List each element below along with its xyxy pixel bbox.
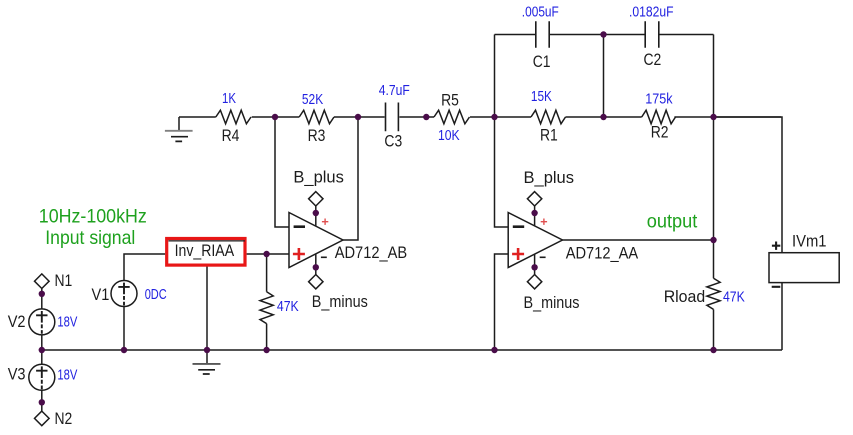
op-amp U1 positive supply pin stub bbox=[315, 206, 317, 226]
wire V1 bottom to ground rail bbox=[123, 307, 125, 351]
ground bbox=[165, 117, 193, 141]
node B_plus diamond op-amp U2 bbox=[527, 192, 541, 206]
op-amp U1 minus input symbol bbox=[294, 225, 305, 228]
source V3 bbox=[29, 364, 55, 390]
svg-text:B_plus: B_plus bbox=[293, 169, 344, 187]
node junction V1 bottom bbox=[121, 347, 127, 353]
svg-text:V3: V3 bbox=[8, 366, 26, 384]
svg-text:10Hz-100kHz: 10Hz-100kHz bbox=[39, 206, 147, 228]
node junction Rload bottom bbox=[710, 347, 716, 353]
wire Inv_RIAA bottom stub to ground rail bbox=[206, 266, 208, 363]
subcircuit Inv_RIAA box bbox=[167, 239, 245, 266]
source V1 bbox=[111, 281, 137, 307]
node junction U1 supply top bbox=[313, 210, 319, 216]
capacitor C3 bbox=[386, 103, 399, 132]
svg-text:.0182uF: .0182uF bbox=[629, 5, 674, 21]
wire op-amp U2 plus input down to ground rail bbox=[495, 254, 509, 350]
svg-text:output: output bbox=[647, 211, 698, 233]
wire op-amp U1 output to R3/C3 junction bbox=[343, 117, 358, 240]
wire vertical x=603.5 between C1/C2 junction and R1/R2 junction bbox=[603, 35, 605, 118]
svg-text:R2: R2 bbox=[651, 124, 669, 142]
node junction U2 supply bottom bbox=[531, 264, 537, 270]
op-amp U2 AD712_AA triangle bbox=[508, 213, 562, 268]
op-amp U2 small red plus (supply) bbox=[541, 219, 547, 225]
node junction ground rail center bbox=[204, 347, 210, 353]
svg-text:18V: 18V bbox=[57, 368, 77, 384]
node B_minus diamond op-amp U1 bbox=[309, 275, 323, 289]
wire op-amp U2 output to right vertical bbox=[563, 239, 714, 241]
svg-text:47K: 47K bbox=[723, 290, 745, 306]
wire main horizontal line y=117 segments bbox=[179, 116, 781, 118]
node junction U2 plus bottom bbox=[491, 347, 497, 353]
wire Rload bottom lead bbox=[713, 309, 715, 350]
svg-text:R5: R5 bbox=[441, 92, 459, 110]
svg-text:AD712_AA: AD712_AA bbox=[566, 245, 639, 263]
wire V1 branch from Inv_RIAA left to V1 top bbox=[124, 254, 165, 281]
node junction above N2 bbox=[39, 399, 45, 405]
node junction below N1 bbox=[39, 291, 45, 297]
svg-text:C3: C3 bbox=[384, 133, 402, 151]
wire left source chain x=41 bbox=[41, 289, 43, 412]
svg-text:B_minus: B_minus bbox=[312, 293, 368, 311]
wire vertical right x=713.5 from top line down to Rload top bbox=[713, 35, 715, 279]
resistor R1 bbox=[531, 110, 566, 124]
wire top feedback line y=34.5 bbox=[495, 34, 714, 36]
voltmeter IVm1 plus terminal bbox=[772, 242, 780, 250]
svg-text:175k: 175k bbox=[645, 92, 673, 108]
svg-text:IVm1: IVm1 bbox=[792, 233, 827, 251]
op-amp U1 negative supply pin stub bbox=[315, 254, 317, 275]
node B_plus diamond op-amp U1 bbox=[309, 192, 323, 206]
svg-text:V2: V2 bbox=[8, 313, 26, 331]
op-amp U2 small minus (supply) bbox=[540, 256, 546, 258]
node junction U1 supply bottom bbox=[313, 264, 319, 270]
svg-text:N1: N1 bbox=[55, 272, 73, 290]
node junction R3/C3 output U1 bbox=[355, 114, 361, 120]
svg-text:Rload: Rload bbox=[664, 288, 706, 306]
voltmeter IVm1 box bbox=[769, 253, 839, 283]
ground below Inv_RIAA bbox=[193, 364, 221, 374]
svg-text:4.7uF: 4.7uF bbox=[379, 83, 410, 99]
svg-text:C1: C1 bbox=[533, 53, 551, 71]
svg-text:AD712_AB: AD712_AB bbox=[335, 244, 408, 262]
node junction R1/R2 bbox=[600, 114, 606, 120]
op-amp U2 minus input symbol bbox=[513, 225, 524, 228]
node junction R4/R3 bbox=[272, 114, 278, 120]
op-amp U1 small minus (supply) bbox=[321, 256, 327, 258]
op-amp U1 plus input symbol (red) bbox=[293, 248, 305, 260]
op-amp U2 negative supply pin stub bbox=[534, 254, 536, 274]
resistor R2 bbox=[642, 110, 676, 124]
node junction C1/C2 bbox=[600, 31, 606, 37]
wire op-amp U1 feedback from R4/R3 junction down to minus input bbox=[275, 117, 289, 227]
capacitor C1 bbox=[536, 21, 549, 47]
svg-text:C2: C2 bbox=[644, 51, 662, 69]
svg-text:0DC: 0DC bbox=[145, 287, 167, 303]
node B_minus diamond op-amp U2 bbox=[527, 275, 541, 289]
svg-text:V1: V1 bbox=[92, 286, 110, 304]
node junction plus input U1 bbox=[263, 251, 269, 257]
op-amp U2 positive supply pin stub bbox=[534, 206, 536, 226]
wire 47K resistor branch vertical x=266.6 bbox=[266, 254, 268, 350]
svg-text:47K: 47K bbox=[277, 299, 299, 315]
op-amp U1 small red plus (supply) bbox=[322, 219, 328, 225]
node junction R5/R1 bbox=[491, 114, 497, 120]
resistor R3 bbox=[299, 110, 334, 124]
node junction 47K bottom bbox=[263, 347, 269, 353]
svg-text:B_plus: B_plus bbox=[524, 169, 575, 187]
svg-text:B_minus: B_minus bbox=[524, 294, 580, 312]
node N2 diamond bbox=[35, 411, 50, 426]
wire op-amp U1 plus input from Inv_RIAA bbox=[247, 253, 289, 255]
node N1 diamond bbox=[35, 274, 50, 289]
svg-text:R1: R1 bbox=[540, 127, 558, 145]
svg-text:N2: N2 bbox=[55, 410, 73, 428]
node junction U2 supply top bbox=[531, 210, 537, 216]
op-amp U2 plus input symbol (red) bbox=[512, 248, 524, 260]
resistor R5 bbox=[434, 110, 470, 124]
svg-text:Input signal: Input signal bbox=[45, 227, 135, 249]
svg-text:52K: 52K bbox=[302, 92, 324, 108]
svg-text:10K: 10K bbox=[438, 128, 460, 144]
svg-text:Inv_RIAA: Inv_RIAA bbox=[175, 242, 235, 260]
node junction V2/V3 bbox=[39, 347, 45, 353]
op-amp U1 AD712_AB triangle bbox=[289, 213, 343, 268]
svg-text:18V: 18V bbox=[57, 315, 77, 331]
svg-text:1K: 1K bbox=[222, 91, 236, 107]
source V2 bbox=[29, 309, 55, 335]
voltmeter IVm1 minus terminal bbox=[772, 286, 781, 288]
wire IVm1 branch bbox=[714, 117, 783, 350]
resistor R4 bbox=[216, 110, 251, 124]
wire vertical from top line to main line x=494.5 and to op-amp U2 minus input bbox=[495, 35, 509, 228]
capacitor C2 bbox=[645, 21, 659, 47]
svg-text:R3: R3 bbox=[308, 127, 326, 145]
svg-text:R4: R4 bbox=[222, 127, 240, 145]
resistor 47K vertical bbox=[260, 292, 273, 324]
resistor Rload vertical bbox=[707, 278, 720, 309]
svg-text:15K: 15K bbox=[531, 89, 552, 105]
node junction R2 right bbox=[710, 114, 716, 120]
node junction C3/R5 bbox=[423, 114, 429, 120]
svg-text:.005uF: .005uF bbox=[522, 5, 559, 21]
wire bottom ground rail y=350 bbox=[42, 349, 782, 351]
node junction output bbox=[710, 237, 716, 243]
